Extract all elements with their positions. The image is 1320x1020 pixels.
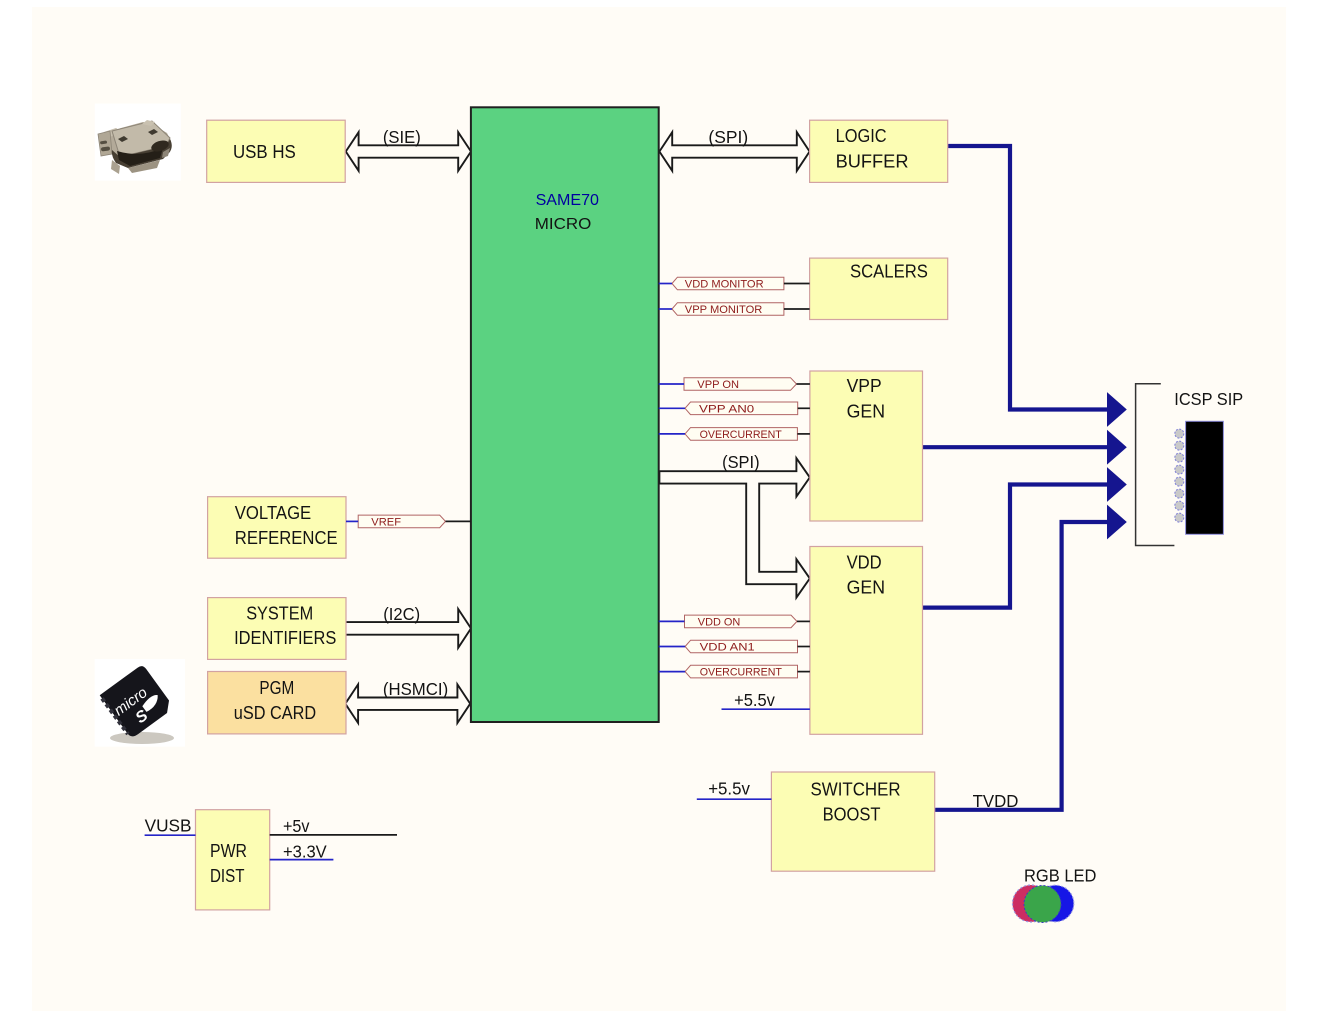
wire blue VDD ON bbox=[659, 620, 685, 622]
svg-text:VPP AN0: VPP AN0 bbox=[699, 403, 754, 415]
svg-text:VPP ON: VPP ON bbox=[697, 379, 739, 391]
wire blue OVERCURRENT upper bbox=[659, 433, 685, 435]
net label OVERCURRENT lower bbox=[685, 665, 797, 678]
wire +5v from PWR DIST bbox=[270, 834, 397, 836]
wire black VREF to micro bbox=[446, 520, 471, 522]
svg-text:GEN: GEN bbox=[847, 400, 885, 421]
bus SWITCHER BOOST TVDD to ICSP bbox=[936, 522, 1107, 810]
arrowhead ICSP 2 bbox=[1107, 430, 1127, 465]
ICSP SIP pin 7 bbox=[1175, 501, 1184, 510]
block VPP GEN bbox=[810, 371, 923, 521]
LED green circle bbox=[1024, 886, 1061, 923]
net label VDD AN1 bbox=[685, 640, 797, 653]
double arrow (HSMCI) bbox=[345, 684, 470, 723]
svg-text:PWR: PWR bbox=[210, 840, 247, 861]
block VDD GEN bbox=[810, 547, 923, 735]
arrowhead ICSP 3 bbox=[1107, 467, 1127, 502]
block SWITCHER BOOST bbox=[771, 772, 934, 871]
svg-text:VUSB: VUSB bbox=[145, 816, 192, 836]
svg-text:VPP MONITOR: VPP MONITOR bbox=[685, 304, 763, 316]
svg-text:OVERCURRENT: OVERCURRENT bbox=[700, 667, 782, 679]
wire black VDD MONITOR to SCALERS bbox=[784, 283, 810, 285]
svg-text:uSD CARD: uSD CARD bbox=[234, 702, 316, 723]
svg-text:VDD MONITOR: VDD MONITOR bbox=[685, 278, 764, 290]
svg-text:TVDD: TVDD bbox=[973, 791, 1019, 811]
wire blue VDD AN1 bbox=[659, 646, 685, 648]
wire blue OVERCURRENT lower bbox=[659, 671, 685, 673]
block LOGIC BUFFER bbox=[810, 120, 948, 182]
svg-text:+5.5v: +5.5v bbox=[734, 690, 775, 710]
ICSP SIP pin 1 bbox=[1175, 429, 1184, 438]
svg-text:(SPI): (SPI) bbox=[708, 127, 748, 147]
wire +5.5v into VDD GEN bbox=[722, 708, 810, 710]
svg-text:(SIE): (SIE) bbox=[383, 127, 421, 147]
svg-text:BUFFER: BUFFER bbox=[836, 150, 909, 171]
wire black VPP ON to VPP GEN bbox=[797, 383, 810, 385]
net label VPP MONITOR bbox=[672, 303, 784, 316]
arrowhead ICSP 1 bbox=[1107, 392, 1127, 427]
svg-text:VDD: VDD bbox=[847, 551, 882, 572]
svg-text:+3.3V: +3.3V bbox=[283, 842, 327, 862]
svg-text:+5.5v: +5.5v bbox=[708, 779, 750, 799]
net label VPP ON bbox=[684, 378, 797, 391]
block PGM uSD CARD bbox=[208, 672, 346, 734]
svg-text:VDD ON: VDD ON bbox=[698, 616, 741, 628]
svg-text:VREF: VREF bbox=[371, 516, 401, 528]
svg-text:IDENTIFIERS: IDENTIFIERS bbox=[234, 627, 336, 648]
wire blue VPP AN0 bbox=[659, 407, 685, 409]
block USB HS bbox=[207, 120, 346, 182]
wire black OVERCURRENT lower to VDD GEN bbox=[798, 671, 810, 673]
svg-text:LOGIC: LOGIC bbox=[836, 125, 887, 146]
LED blue circle bbox=[1037, 885, 1074, 922]
bus VPP GEN to ICSP bbox=[924, 445, 1108, 449]
branched hollow arrow (SPI) to VPP GEN and VDD GEN bbox=[659, 458, 809, 597]
svg-text:REFERENCE: REFERENCE bbox=[235, 527, 338, 548]
wire black OVERCURRENT upper to VPP GEN bbox=[797, 433, 810, 435]
wire black VPP MONITOR to SCALERS bbox=[784, 308, 810, 310]
wire blue VPP MONITOR bbox=[659, 308, 672, 310]
wire VUSB into PWR DIST bbox=[145, 834, 196, 836]
double arrow (SIE) bbox=[346, 132, 471, 171]
svg-text:(I2C): (I2C) bbox=[383, 604, 420, 624]
svg-text:DIST: DIST bbox=[210, 865, 245, 886]
wire blue VPP ON bbox=[659, 383, 684, 385]
wire +3.3V from PWR DIST bbox=[270, 859, 334, 861]
svg-text:SYSTEM: SYSTEM bbox=[246, 603, 313, 624]
wire blue VREF bbox=[346, 520, 358, 522]
svg-text:VOLTAGE: VOLTAGE bbox=[235, 502, 311, 523]
block SCALERS bbox=[810, 258, 948, 319]
bus VDD GEN to ICSP bbox=[924, 485, 1108, 608]
svg-text:BOOST: BOOST bbox=[823, 804, 881, 825]
svg-text:RGB LED: RGB LED bbox=[1024, 866, 1096, 886]
svg-text:OVERCURRENT: OVERCURRENT bbox=[700, 429, 782, 441]
svg-text:SWITCHER: SWITCHER bbox=[811, 779, 901, 800]
wire black VDD ON to VDD GEN bbox=[797, 620, 810, 622]
wire black VPP AN0 to VPP GEN bbox=[798, 407, 810, 409]
svg-text:SAME70: SAME70 bbox=[536, 192, 600, 209]
ICSP SIP connector body bbox=[1186, 421, 1224, 534]
ICSP SIP pin 4 bbox=[1175, 465, 1184, 474]
net label VDD MONITOR bbox=[672, 277, 784, 290]
arrow (I2C) to micro bbox=[345, 609, 471, 648]
wire +5.5v into SWITCHER BOOST bbox=[697, 798, 772, 800]
LED red circle bbox=[1013, 885, 1050, 922]
block VOLTAGE REFERENCE bbox=[208, 497, 346, 559]
wire blue VDD MONITOR bbox=[659, 283, 672, 285]
svg-text:GEN: GEN bbox=[847, 577, 885, 598]
svg-text:PGM: PGM bbox=[259, 677, 294, 698]
ICSP SIP pin 8 bbox=[1175, 513, 1184, 522]
ICSP SIP pin 6 bbox=[1175, 489, 1184, 498]
svg-text:ICSP SIP: ICSP SIP bbox=[1174, 389, 1243, 409]
svg-text:(HSMCI): (HSMCI) bbox=[383, 679, 448, 699]
ICSP SIP pin 2 bbox=[1175, 441, 1184, 450]
svg-text:SCALERS: SCALERS bbox=[850, 261, 928, 282]
bus LOGIC BUFFER to ICSP bbox=[949, 146, 1107, 410]
net label OVERCURRENT upper bbox=[685, 428, 797, 441]
ICSP SIP pin 3 bbox=[1175, 453, 1184, 462]
ICSP SIP pin 5 bbox=[1175, 477, 1184, 486]
wire black VDD AN1 to VDD GEN bbox=[798, 646, 810, 648]
net label VDD ON bbox=[685, 615, 798, 628]
svg-text:VDD AN1: VDD AN1 bbox=[700, 642, 755, 654]
USB connector photo bbox=[95, 104, 181, 181]
ICSP SIP bracket bbox=[1136, 384, 1175, 546]
arrowhead ICSP 4 bbox=[1107, 505, 1127, 540]
micro block SAME70 bbox=[471, 107, 659, 722]
svg-text:USB HS: USB HS bbox=[233, 141, 296, 162]
block SYSTEM IDENTIFIERS bbox=[208, 598, 346, 660]
microSD card photo bbox=[95, 659, 185, 747]
svg-text:+5v: +5v bbox=[283, 816, 310, 836]
net label VPP AN0 bbox=[685, 402, 798, 415]
block PWR DIST bbox=[196, 810, 270, 910]
svg-text:VPP: VPP bbox=[847, 375, 882, 396]
svg-text:(SPI): (SPI) bbox=[722, 452, 760, 472]
net label VREF bbox=[358, 515, 445, 528]
svg-text:MICRO: MICRO bbox=[535, 216, 592, 233]
double arrow (SPI) to LOGIC BUFFER bbox=[659, 132, 809, 171]
